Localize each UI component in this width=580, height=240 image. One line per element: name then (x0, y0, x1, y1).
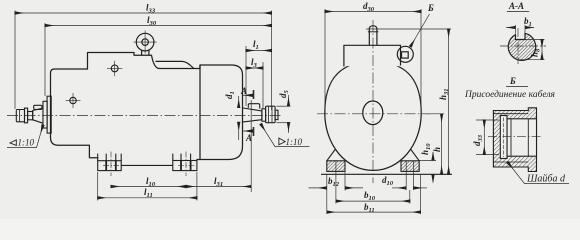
internal step line in wall (493, 113, 528, 115)
hole left section (66, 61, 123, 108)
left foot (98, 154, 122, 171)
right shaft end: cone, key, washer, nut, tip (243, 104, 278, 123)
rib line on top (156, 61, 194, 68)
frame outline (325, 62, 421, 171)
taper triangle right (279, 138, 285, 145)
d30 (324, 9, 326, 110)
svg-text:Шайба d: Шайба d (526, 174, 566, 185)
l33 dimension line (15, 12, 272, 14)
svg-text:1:10: 1:10 (18, 138, 35, 148)
svg-text:A: A (245, 133, 252, 143)
shaft section circle with keyway (508, 33, 535, 60)
l30 dimension line (45, 25, 272, 27)
l3 dimension line (246, 67, 263, 69)
baseline (321, 173, 452, 175)
title underline Б (506, 86, 528, 88)
svg-text:Присоединение кабеля: Присоединение кабеля (464, 89, 555, 100)
bore (white) (507, 119, 537, 156)
svg-text:h: h (432, 147, 442, 152)
b1 dimension (515, 25, 517, 34)
b10 (335, 161, 337, 204)
title underline A-A (507, 11, 529, 13)
d5 dimension (277, 105, 291, 107)
h10 (420, 160, 437, 162)
bar between feet (121, 164, 173, 166)
svg-text:Б: Б (509, 76, 516, 86)
svg-text:1:10: 1:10 (286, 137, 303, 147)
l33 extension lines (14, 11, 16, 110)
d1 dimension (238, 96, 240, 108)
washer (500, 116, 507, 159)
l31 extension line (250, 100, 252, 192)
svg-text:A: A (240, 86, 247, 96)
l11 dimension (98, 197, 197, 199)
centerlines (317, 113, 430, 115)
body bottom left (51, 138, 98, 158)
d10 (392, 187, 406, 189)
b12 (326, 174, 328, 214)
front view dimensions (309, 9, 452, 214)
left shaft end: cone, key, stud, washer, nut (16, 105, 43, 123)
gland body section (493, 108, 536, 172)
gland boss circle (detail Б) (397, 46, 413, 62)
l30 extension line (44, 23, 46, 96)
motor body outline (51, 53, 243, 160)
taper leader left with shelf (7, 125, 43, 148)
h (425, 113, 444, 115)
terminal box interior mask (343, 45, 401, 66)
b11 (420, 174, 422, 214)
svg-text:Б: Б (427, 3, 434, 13)
Б leader (411, 14, 430, 47)
l1 extension lines (245, 46, 247, 106)
fan cowl joint (199, 65, 201, 160)
taper leader right with shelf (261, 124, 310, 147)
shaft circle (363, 101, 383, 125)
terminal box (344, 26, 413, 67)
front feet (321, 149, 452, 174)
washer leader with shelf (508, 162, 569, 183)
hole terminal box (111, 65, 118, 72)
l1 dimension line (246, 50, 272, 52)
left bearing plates (43, 96, 51, 133)
taper triangle left (10, 140, 16, 146)
main centerline (7, 115, 283, 117)
l10 dimension (111, 186, 186, 188)
cable gland cylinder on top (369, 26, 377, 46)
section A-A cut marks (253, 90, 255, 99)
eyebolt (136, 33, 154, 55)
detail centerline (488, 135, 542, 137)
right foot (173, 154, 197, 171)
foot hole lines front (406, 161, 413, 190)
d33 dimension (476, 119, 499, 121)
h31 (366, 28, 451, 30)
h8 dimension (524, 39, 545, 41)
l11 extension lines (97, 172, 99, 201)
svg-text:A-A: A-A (508, 1, 524, 11)
l31 dimension (186, 186, 251, 188)
